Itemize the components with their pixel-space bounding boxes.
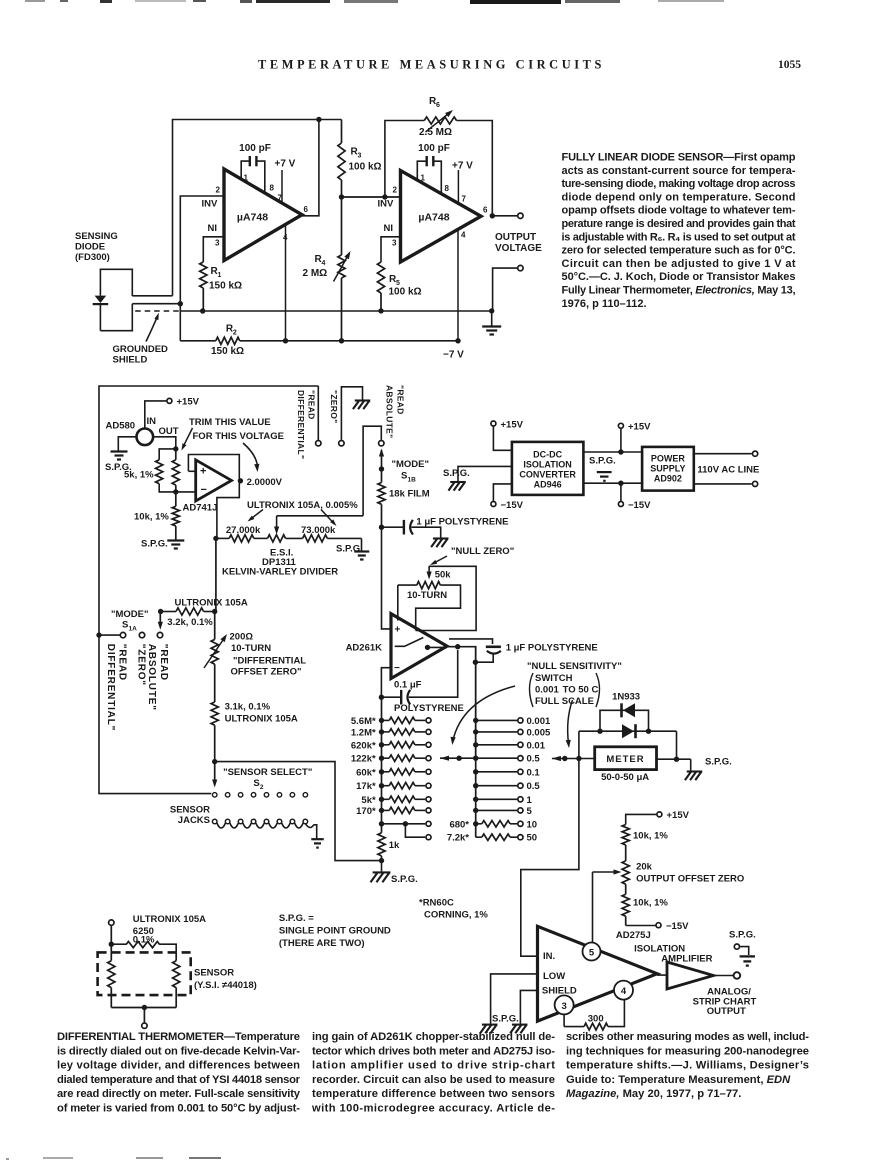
capacitor 100pF opamp1 <box>241 161 250 179</box>
jack read differential top <box>316 441 321 446</box>
resistor 60k* ladder <box>379 769 384 774</box>
node 1uF to bus <box>473 660 478 665</box>
svg-text:SENSOR: SENSOR <box>170 805 210 816</box>
power supply AD902 box <box>642 447 694 491</box>
resistor 1k bottom <box>381 824 383 833</box>
svg-text:S.P.G.: S.P.G. <box>729 930 756 941</box>
svg-text:acts as constant-current sourc: acts as constant-current source for temp… <box>562 165 796 177</box>
svg-text:OUTPUT: OUTPUT <box>707 1006 746 1017</box>
svg-text:20k: 20k <box>636 862 653 873</box>
svg-text:7: 7 <box>462 195 467 204</box>
wire opamp1 output to top wire <box>302 120 319 216</box>
diode clamp loop 1N933 <box>600 710 649 731</box>
wire 50k right inner loop <box>416 585 461 630</box>
-15V jack <box>626 925 656 927</box>
svg-text:OUT: OUT <box>159 426 179 437</box>
node R3 bottom / opamp2 inv <box>339 194 344 199</box>
svg-text:KELVIN-VARLEY DIVIDER: KELVIN-VARLEY DIVIDER <box>222 567 338 578</box>
svg-text:100 pF: 100 pF <box>239 143 271 154</box>
wire output to jack <box>492 215 517 217</box>
svg-text:110V AC LINE: 110V AC LINE <box>697 464 759 475</box>
svg-text:+: + <box>395 625 401 636</box>
svg-text:4: 4 <box>621 986 627 997</box>
switch position 0.01 <box>473 742 478 747</box>
svg-text:10-TURN: 10-TURN <box>231 643 271 654</box>
svg-text:(Y.S.I. ≠44018): (Y.S.I. ≠44018) <box>194 980 257 991</box>
wire feedback loop opamp1 top <box>173 120 342 296</box>
resistor R3 100k <box>341 120 343 144</box>
wire main left bus <box>99 386 318 794</box>
svg-text:AD275J: AD275J <box>616 930 651 941</box>
svg-text:5: 5 <box>589 948 595 959</box>
node R5 to ground rail <box>378 308 383 313</box>
node 3.2k right on chain <box>212 609 217 614</box>
wire sensor box to feedback vertical <box>132 295 172 297</box>
node opamp2 pin4 -7V <box>455 338 460 343</box>
svg-text:18k FILM: 18k FILM <box>389 489 430 500</box>
resistor 10k 1% <box>175 492 177 506</box>
svg-text:INV: INV <box>378 199 395 210</box>
svg-text:+7 V: +7 V <box>275 159 296 170</box>
svg-text:zero for selected temperature: zero for selected temperature such as fo… <box>562 245 796 257</box>
svg-text:"READ: "READ <box>116 644 127 681</box>
switch position 50 <box>476 836 482 838</box>
wire opamp1 pin4 to -7V rail <box>285 225 287 341</box>
svg-text:1: 1 <box>244 174 249 183</box>
cap feed wire 1uF poly output <box>449 639 493 644</box>
pointer curve left to switch <box>453 686 515 741</box>
svg-text:opamp offsets diode voltage to: opamp offsets diode voltage to whatever … <box>562 205 796 217</box>
svg-text:10k, 1%: 10k, 1% <box>633 831 668 842</box>
svg-text:diode depend only on temperatu: diode depend only on temperature. Second <box>562 191 796 203</box>
output dot 0.1uF tap <box>455 644 460 649</box>
svg-text:150 kΩ: 150 kΩ <box>209 281 242 292</box>
wire R4 from inv node down <box>341 197 343 255</box>
svg-text:4: 4 <box>461 231 466 240</box>
switch position 0.5 <box>473 783 478 788</box>
svg-text:ture-sensing diode, making vol: ture-sensing diode, making voltage drop … <box>562 178 796 190</box>
svg-text:Fully Linear Thermometer, Elec: Fully Linear Thermometer, Electronics, M… <box>562 285 796 297</box>
svg-text:60k*: 60k* <box>356 767 376 778</box>
wire divider output chain <box>215 538 217 611</box>
svg-text:temperature shifts.—J. William: temperature shifts.—J. Williams, Designe… <box>566 1060 809 1072</box>
wire minus input down <box>381 668 391 698</box>
node opamp1 pin4 on -7V rail <box>283 338 288 343</box>
svg-text:scribes other measuring modes: scribes other measuring modes as well, i… <box>566 1031 809 1043</box>
svg-text:S.P.G. =: S.P.G. = <box>279 913 314 924</box>
svg-text:−: − <box>394 663 400 674</box>
node R6 left on inv wire <box>382 194 387 199</box>
svg-text:DIODE: DIODE <box>75 242 105 253</box>
node +15V mid <box>618 449 623 454</box>
svg-text:METER: METER <box>606 754 644 765</box>
svg-text:(FD300): (FD300) <box>75 252 110 263</box>
dashed sensor enclosure <box>98 952 191 995</box>
wiper arrow 50k <box>428 566 430 575</box>
switch S1A wiper arrow <box>158 622 163 630</box>
ladder row 9 wires <box>379 821 384 826</box>
svg-text:TEMPERATURE MEASURING CIRCUITS: TEMPERATURE MEASURING CIRCUITS <box>258 58 605 72</box>
sensor select wiper arrow <box>214 762 216 782</box>
capacitor 1uF polystyrene (output) <box>486 645 501 648</box>
ground SPG divider right <box>361 538 363 551</box>
jack zero top + ground <box>341 387 362 440</box>
potentiometer R4 2M <box>338 255 345 278</box>
node mode S1B <box>379 466 384 471</box>
svg-text:ley voltage divider, and diffe: ley voltage divider, and differences bet… <box>57 1060 300 1072</box>
wire +7V opamp2 <box>457 170 459 203</box>
potentiometer 20k output offset zero <box>622 861 629 884</box>
svg-text:10k, 1%: 10k, 1% <box>134 512 169 523</box>
svg-text:3: 3 <box>561 1001 566 1012</box>
node AD580 out <box>173 446 178 451</box>
svg-text:S.P.G.: S.P.G. <box>705 757 732 768</box>
svg-text:5k, 1%: 5k, 1% <box>124 470 154 481</box>
wire sensor select to right bus <box>215 762 382 861</box>
svg-text:S.P.G: S.P.G <box>336 544 360 555</box>
wire DC-DC to power supply bottom <box>583 482 642 484</box>
svg-text:GROUNDED: GROUNDED <box>113 344 169 355</box>
wire coil to ground <box>305 824 313 828</box>
svg-text:+15V: +15V <box>177 397 200 408</box>
svg-text:FULL SCALE: FULL SCALE <box>535 696 594 707</box>
svg-text:1: 1 <box>421 174 426 183</box>
resistor ladder left bus <box>381 697 383 824</box>
svg-text:2: 2 <box>233 330 237 337</box>
svg-text:0.1 μF: 0.1 μF <box>394 680 422 691</box>
svg-text:IN.: IN. <box>543 951 555 962</box>
wire SPG to DC-DC left <box>458 466 512 481</box>
svg-text:0.1: 0.1 <box>527 767 541 778</box>
svg-text:"DIFFERENTIAL: "DIFFERENTIAL <box>233 656 306 667</box>
svg-text:−: − <box>201 484 207 496</box>
wire kelvin-varley wiper <box>277 515 364 517</box>
node AD741J output <box>238 478 243 483</box>
sensor resistor left <box>108 961 115 988</box>
svg-text:SHIELD: SHIELD <box>113 355 148 366</box>
wire opamp1 inv input <box>180 196 224 303</box>
svg-text:are read directly on meter. Fu: are read directly on meter. Full-scale s… <box>57 1088 301 1100</box>
wire main bus down to AD261K + input <box>382 527 392 629</box>
svg-text:OUTPUT: OUTPUT <box>495 232 536 243</box>
pin 4 circle <box>614 981 633 1000</box>
svg-text:27.000k: 27.000k <box>226 525 261 536</box>
pointer curve right to meter row <box>568 700 573 744</box>
resistor 6250 0.1% <box>111 943 126 945</box>
svg-text:6: 6 <box>304 205 309 214</box>
sensor bottom wire <box>111 1007 176 1009</box>
trim resistor <box>175 449 177 460</box>
wire output down to divider <box>217 481 239 539</box>
svg-text:CONVERTER: CONVERTER <box>519 470 576 480</box>
resistor R2 150k on -7V rail <box>180 340 216 342</box>
svg-text:(THERE ARE TWO): (THERE ARE TWO) <box>279 938 365 949</box>
svg-text:ing techniques for measuring 2: ing techniques for measuring 200-nanodeg… <box>566 1045 809 1057</box>
svg-text:SHIELD: SHIELD <box>542 985 577 996</box>
svg-text:VOLTAGE: VOLTAGE <box>495 243 542 254</box>
svg-text:5.6M*: 5.6M* <box>351 716 376 727</box>
svg-text:POWER: POWER <box>651 454 686 464</box>
sensor jack bottom <box>142 1023 147 1028</box>
node R4 to -7V rail <box>339 338 344 343</box>
resistor R1 150k <box>200 262 207 288</box>
svg-text:2.5 MΩ: 2.5 MΩ <box>419 127 452 138</box>
svg-text:S.P.G.: S.P.G. <box>391 874 418 885</box>
op-amp AD741J <box>196 460 232 501</box>
svg-text:0.5: 0.5 <box>527 781 541 792</box>
svg-text:with 100-microdegree accuracy.: with 100-microdegree accuracy. Article d… <box>311 1103 555 1115</box>
svg-text:1 μF POLYSTYRENE: 1 μF POLYSTYRENE <box>416 517 508 528</box>
svg-text:7.2k*: 7.2k* <box>447 833 469 844</box>
node 1k bottom <box>379 858 384 863</box>
svg-text:−15V: −15V <box>666 921 689 932</box>
node divider left end <box>213 536 218 541</box>
svg-text:1 μF POLYSTYRENE: 1 μF POLYSTYRENE <box>506 643 598 654</box>
wire meter to SPG <box>657 758 691 760</box>
svg-text:1976, p 110–112.: 1976, p 110–112. <box>562 298 647 310</box>
svg-text:Magazine, May 20, 1977, p 71–7: Magazine, May 20, 1977, p 71–77. <box>566 1088 741 1100</box>
svg-text:FULLY LINEAR DIODE SENSOR—Firs: FULLY LINEAR DIODE SENSOR—First opamp <box>562 152 796 164</box>
svg-text:300: 300 <box>588 1014 604 1025</box>
wiper 20k to pin5 <box>593 871 618 873</box>
svg-text:S.P.G.: S.P.G. <box>589 456 616 467</box>
svg-text:50: 50 <box>527 833 538 844</box>
wire inv node to opamp2 <box>342 196 401 198</box>
svg-text:4: 4 <box>322 260 326 267</box>
svg-text:"NULL SENSITIVITY": "NULL SENSITIVITY" <box>527 661 622 672</box>
output jack upper <box>518 213 523 218</box>
svg-text:DIFFERENTIAL": DIFFERENTIAL" <box>296 390 306 459</box>
wire to analog output jack <box>657 974 667 976</box>
svg-text:5k*: 5k* <box>361 795 376 806</box>
wire SHIELD to SPG <box>520 990 537 1023</box>
switch position 0.005 <box>473 729 478 734</box>
svg-text:620k*: 620k* <box>351 740 376 751</box>
svg-text:8: 8 <box>445 184 450 193</box>
svg-text:3: 3 <box>358 153 362 160</box>
svg-text:"NULL ZERO": "NULL ZERO" <box>451 546 514 557</box>
potentiometer 200ohm 10-turn differential offset zero <box>211 639 218 664</box>
svg-text:AD741J: AD741J <box>183 503 218 514</box>
resistor 620k* ladder <box>379 742 384 747</box>
resistor R5 100k <box>377 262 384 293</box>
wire AD580 out <box>153 437 176 449</box>
svg-text:1055: 1055 <box>778 59 801 71</box>
svg-text:−15V: −15V <box>501 500 524 511</box>
svg-text:Circuit can then be adjusted t: Circuit can then be adjusted to give 1 V… <box>562 258 796 270</box>
svg-text:5: 5 <box>527 806 533 817</box>
wire opamp1 ni input <box>203 237 224 262</box>
svg-text:+: + <box>200 466 206 478</box>
svg-text:50k: 50k <box>435 570 452 581</box>
op-amp AD261K null detector <box>391 614 447 679</box>
switch position 0.5 <box>473 756 478 761</box>
svg-text:ULTRONIX 105A: ULTRONIX 105A <box>225 714 298 725</box>
svg-text:ing gain of AD261K chopper-sta: ing gain of AD261K chopper-stabilized nu… <box>312 1031 555 1043</box>
svg-text:3: 3 <box>215 239 220 248</box>
svg-text:122k*: 122k* <box>351 754 376 765</box>
svg-text:S: S <box>122 620 128 631</box>
svg-text:of meter is varied from 0.001: of meter is varied from 0.001 to 50°C by… <box>57 1103 300 1115</box>
svg-text:2: 2 <box>216 186 221 195</box>
svg-text:recorder. Circuit can also be: recorder. Circuit can also be used to me… <box>312 1074 555 1086</box>
svg-text:+15V: +15V <box>667 810 690 821</box>
svg-text:170*: 170* <box>356 806 376 817</box>
svg-text:1A: 1A <box>129 626 138 633</box>
wire output right to bus <box>447 647 476 758</box>
resistor 1.2M* ladder <box>379 729 384 734</box>
wire sensor left branch <box>110 944 112 961</box>
node 0.1uF left <box>379 695 384 700</box>
svg-text:+15V: +15V <box>628 422 651 433</box>
svg-text:*RN60C: *RN60C <box>419 898 454 909</box>
switch S1A mode jacks lower-left <box>96 632 101 637</box>
switch position 10 <box>473 821 478 826</box>
diode FD300 <box>95 296 107 303</box>
page edge scan artifacts (bottom) <box>43 1157 73 1159</box>
svg-text:POLYSTYRENE: POLYSTYRENE <box>394 703 464 714</box>
wire opamp2 ni input <box>381 237 401 262</box>
resistor 5k* ladder <box>379 797 384 802</box>
svg-text:3: 3 <box>392 239 397 248</box>
svg-text:AD946: AD946 <box>534 480 562 490</box>
resistor 122k* ladder <box>379 756 384 761</box>
svg-text:100 kΩ: 100 kΩ <box>349 162 382 173</box>
node R1 to ground rail <box>200 308 205 313</box>
svg-text:0.001: 0.001 <box>527 716 551 727</box>
jack read absolute top + bracket <box>363 426 381 516</box>
wire top read-differential jack stem <box>317 386 319 440</box>
svg-text:50-0-50 μA: 50-0-50 μA <box>601 772 649 783</box>
svg-text:is directly dialed out on five: is directly dialed out on five-decade Ke… <box>57 1045 300 1057</box>
pin 5 circle <box>583 943 601 961</box>
resistor 17k* ladder <box>379 783 384 788</box>
svg-text:µA748: µA748 <box>418 212 449 224</box>
svg-text:ABSOLUTE": ABSOLUTE" <box>385 385 395 438</box>
resistor 10k 1% lower <box>622 894 629 916</box>
svg-text:SUPPLY: SUPPLY <box>650 464 685 474</box>
svg-text:2 MΩ: 2 MΩ <box>303 268 328 279</box>
svg-text:10k, 1%: 10k, 1% <box>633 898 668 909</box>
svg-text:150 kΩ: 150 kΩ <box>211 346 244 357</box>
svg-text:NI: NI <box>384 223 394 234</box>
svg-text:10-TURN: 10-TURN <box>407 590 447 601</box>
resistor 3.2k 0.1% <box>161 611 176 613</box>
svg-text:OUTPUT OFFSET ZERO: OUTPUT OFFSET ZERO <box>636 873 744 884</box>
node ground rail right end <box>489 308 494 313</box>
wires 110V AC line <box>694 453 752 455</box>
svg-text:NI: NI <box>208 223 218 234</box>
svg-text:"READ: "READ <box>158 644 169 681</box>
potentiometer 50k 10-turn feedback <box>416 566 476 630</box>
resistor 170* ladder <box>379 808 384 813</box>
svg-text:1B: 1B <box>408 477 417 484</box>
svg-text:0.01: 0.01 <box>527 740 546 751</box>
capacitor 100pF opamp2 <box>417 161 426 180</box>
svg-text:AD580: AD580 <box>106 421 136 432</box>
svg-text:dialed temperature and that of: dialed temperature and that of YSI 44018… <box>57 1074 301 1086</box>
svg-text:tector which drives both meter: tector which drives both meter and AD275… <box>312 1045 555 1057</box>
svg-text:−7 V: −7 V <box>443 350 464 361</box>
svg-text:"MODE": "MODE" <box>111 609 149 620</box>
svg-text:100 kΩ: 100 kΩ <box>389 287 422 298</box>
svg-text:1: 1 <box>218 272 222 279</box>
node sensor select <box>212 759 217 764</box>
svg-text:1N933: 1N933 <box>612 692 640 703</box>
wire LOW to SPG <box>491 974 538 1024</box>
output jack lower <box>518 265 523 270</box>
potentiometer R6 2.5M <box>424 117 456 124</box>
capacitor 0.1uF polystyrene <box>381 696 401 698</box>
resistor 50k body <box>398 584 417 586</box>
svg-text:S.P.G.: S.P.G. <box>443 468 470 479</box>
svg-text:S.P.G.: S.P.G. <box>492 1014 519 1025</box>
svg-text:SENSING: SENSING <box>75 231 118 242</box>
wire +7V opamp1 <box>281 170 283 203</box>
svg-text:ISOLATION: ISOLATION <box>523 460 571 470</box>
sensor jacks row <box>212 793 217 798</box>
diode 1N933 lower (points right) <box>622 724 634 738</box>
svg-text:6: 6 <box>483 206 488 215</box>
svg-text:DC-DC: DC-DC <box>533 450 562 460</box>
node sensing diode junction <box>178 301 183 306</box>
svg-text:680*: 680* <box>449 819 469 830</box>
output buffer triangle <box>667 962 714 989</box>
svg-text:3.1k, 0.1%: 3.1k, 0.1% <box>225 702 271 713</box>
svg-text:DIFFERENTIAL THERMOMETER—Tempe: DIFFERENTIAL THERMOMETER—Temperature <box>57 1031 300 1043</box>
resistor 10k 1% upper <box>622 825 629 845</box>
svg-text:FOR THIS VOLTAGE: FOR THIS VOLTAGE <box>193 431 284 442</box>
chopper input line inside <box>395 638 424 647</box>
svg-text:IN: IN <box>147 416 157 427</box>
wire 50k left to amp <box>397 585 399 620</box>
svg-text:−15V: −15V <box>628 500 651 511</box>
svg-text:Guide to: Temperature Measurem: Guide to: Temperature Measurement, EDN <box>566 1074 791 1086</box>
node 3.2k left <box>158 609 163 614</box>
svg-text:"ZERO": "ZERO" <box>135 644 146 686</box>
meter box <box>595 747 657 770</box>
feedback loop R6 wire <box>385 121 424 198</box>
svg-text:1k: 1k <box>389 840 400 851</box>
svg-text:1: 1 <box>527 795 533 806</box>
svg-text:"READ: "READ <box>307 390 317 420</box>
svg-text:LOW: LOW <box>543 971 565 982</box>
op-amp AD275J isolation amplifier <box>538 926 658 1021</box>
DC-DC isolation converter box <box>491 421 496 426</box>
svg-text:73.000k: 73.000k <box>301 525 336 536</box>
svg-text:0.5: 0.5 <box>527 754 541 765</box>
sensor jack top <box>109 920 114 925</box>
grounded shield dashed line <box>135 310 180 312</box>
svg-text:+7 V: +7 V <box>452 161 473 172</box>
svg-text:perature range is desired and: perature range is desired and provides g… <box>562 218 796 230</box>
meter row wire + arrow <box>552 756 561 761</box>
svg-text:ULTRONIX 105A: ULTRONIX 105A <box>133 914 206 925</box>
wire diode node down to R2 line <box>179 304 181 341</box>
switch position 1 <box>473 797 478 802</box>
node AD261K output <box>425 645 430 650</box>
AD580 voltage reference <box>167 398 172 403</box>
svg-text:INV: INV <box>202 199 219 210</box>
svg-text:10: 10 <box>527 819 538 830</box>
svg-text:"SENSOR SELECT": "SENSOR SELECT" <box>223 767 312 778</box>
ground rail wire <box>181 310 492 312</box>
svg-text:SENSOR: SENSOR <box>194 968 234 979</box>
svg-text:2: 2 <box>393 186 398 195</box>
svg-text:100 pF: 100 pF <box>418 143 450 154</box>
switch right column bus <box>475 647 477 838</box>
resistor 5k 1% <box>159 449 176 460</box>
